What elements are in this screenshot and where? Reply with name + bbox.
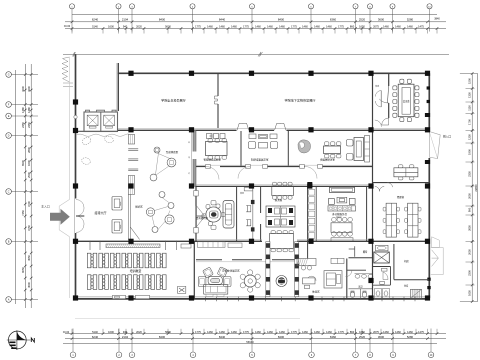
column (73, 295, 78, 300)
service mid unit (329, 199, 335, 205)
lounge side chair right (223, 277, 231, 287)
svg-text:±0.00: ±0.00 (63, 331, 70, 334)
partition x366 (366, 187, 368, 242)
svg-text:1460: 1460 (279, 330, 285, 334)
svg-text:940: 940 (123, 25, 128, 29)
svg-text:视听区: 视听区 (135, 205, 143, 209)
outer wall top (118, 72, 430, 74)
svg-text:1460: 1460 (407, 25, 413, 29)
dimension line top-2 (65, 28, 446, 30)
svg-text:860: 860 (350, 330, 355, 334)
grid bubble top 6 (308, 4, 313, 9)
svg-text:1460: 1460 (326, 25, 332, 29)
wall y166 d (318, 166, 373, 168)
svg-text:学院地下文物修复展厅: 学院地下文物修复展厅 (285, 98, 316, 103)
lounge round table (244, 275, 256, 287)
entry arrow (50, 209, 70, 225)
partition x307 (307, 187, 309, 259)
column (425, 71, 430, 76)
grid bubble left 5 (6, 189, 12, 195)
corridor cabinets above lounge (198, 242, 226, 248)
svg-text:6900: 6900 (21, 160, 25, 166)
svg-text:1460: 1460 (314, 25, 320, 29)
feature pier bottom (128, 176, 134, 195)
toilet stalls (349, 288, 373, 290)
copy room shelf (331, 258, 344, 263)
column (73, 99, 78, 104)
svg-text:1775: 1775 (338, 330, 344, 334)
outer wall left lower (75, 233, 77, 300)
column right wall y115 (425, 113, 430, 117)
partition x316 (315, 187, 317, 242)
dimension line left-0 (15, 70, 17, 304)
grid bubble bottom 6 (309, 352, 315, 358)
svg-text:1460: 1460 (383, 330, 389, 334)
column (307, 183, 312, 188)
wall row2 face line (118, 128, 430, 130)
wall training right x194 (193, 241, 195, 299)
entrance opening line (74, 199, 76, 234)
dimension line bottom-3 (63, 342, 437, 344)
grid bubble top 7 (353, 4, 358, 9)
conference table (398, 84, 414, 117)
svg-text:8400: 8400 (159, 18, 166, 22)
kitchenette counter (297, 259, 316, 266)
column (128, 183, 133, 188)
outer wall right upper (428, 73, 430, 131)
dimension line left-1 (24, 64, 26, 308)
svg-text:6240: 6240 (92, 335, 99, 339)
column (128, 295, 133, 300)
wall row y241 east (297, 240, 430, 242)
svg-text:7450: 7450 (21, 210, 25, 216)
sculpture chair gray blob (298, 140, 311, 153)
top dimension band (64, 4, 446, 34)
table room A (206, 142, 228, 156)
window piers corridor north (206, 165, 211, 169)
interactive zone cluster 2 (159, 192, 165, 198)
svg-text:2104: 2104 (122, 335, 129, 339)
mullion right wall y88 (427, 86, 430, 89)
wall y166 b (220, 166, 250, 168)
svg-text:2650: 2650 (468, 225, 472, 231)
grid bubble left 1 (6, 72, 12, 78)
grid bubble bottom 5 (249, 352, 255, 358)
dimension line right-1 (471, 74, 473, 302)
table room C (324, 146, 341, 154)
canopy break mark (258, 52, 263, 57)
column (368, 239, 373, 244)
column (189, 71, 194, 76)
feature wall lower double line (127, 194, 129, 239)
north arrow compass (7, 330, 35, 350)
svg-text:侧入口: 侧入口 (443, 135, 451, 139)
partition x241 (240, 131, 242, 167)
svg-text:5140: 5140 (92, 330, 98, 334)
svg-text:8440: 8440 (219, 18, 226, 22)
column (249, 183, 254, 188)
seats small room (246, 206, 251, 212)
svg-text:1600: 1600 (108, 25, 114, 29)
svg-text:2450: 2450 (27, 122, 31, 128)
display podium 1 (112, 197, 122, 211)
svg-text:1460: 1460 (267, 330, 273, 334)
partition exhibition halls lower (217, 104, 219, 128)
dimension line bottom-1 (65, 333, 446, 335)
svg-text:1650: 1650 (468, 290, 472, 296)
washbasins (355, 274, 360, 278)
finance table top (272, 186, 294, 195)
column x371 y280 (368, 278, 373, 283)
training desks (87, 253, 91, 268)
column (249, 71, 254, 76)
office desk pair top-right (394, 168, 418, 177)
svg-text:接待大厅: 接待大厅 (94, 210, 106, 215)
service stools row 2 (332, 232, 337, 237)
svg-text:2350: 2350 (468, 171, 472, 177)
partition notch (215, 96, 219, 104)
svg-text:企业文化展示区: 企业文化展示区 (222, 268, 240, 272)
column (73, 183, 78, 188)
grid bubble bottom 3 (129, 352, 135, 358)
niche pier left (266, 242, 270, 297)
column (308, 127, 313, 132)
column (308, 295, 313, 300)
specimen room wall (349, 257, 373, 259)
right band bottom tick (460, 301, 478, 303)
svg-text:1475: 1475 (418, 25, 424, 29)
svg-text:1460: 1460 (407, 330, 413, 334)
svg-text:1460: 1460 (231, 25, 237, 29)
column (308, 71, 313, 76)
svg-text:8440: 8440 (219, 335, 226, 339)
svg-text:1460: 1460 (314, 330, 320, 334)
svg-text:1460: 1460 (279, 25, 285, 29)
niche pier right (295, 242, 299, 297)
outer wall bottom inner line (76, 296, 431, 298)
grid bubble bottom 4 (190, 352, 196, 358)
svg-text:2300: 2300 (468, 270, 472, 276)
svg-text:56640: 56640 (246, 340, 254, 344)
svg-text:1475: 1475 (418, 330, 424, 334)
grid bubble top 10 (427, 4, 432, 9)
svg-text:1775: 1775 (291, 25, 297, 29)
side entrance door leaf (429, 132, 440, 159)
grid bubble bottom 8 (367, 352, 373, 358)
door arcs mid rooms (206, 167, 317, 180)
right band top tick (460, 73, 478, 75)
svg-text:1460: 1460 (255, 330, 261, 334)
svg-text:6360: 6360 (330, 335, 337, 339)
column (189, 183, 194, 188)
chairs room A (208, 139, 213, 142)
grid bubble top 2 (116, 4, 121, 9)
svg-text:2500: 2500 (27, 172, 31, 178)
mullion right wall y287 (427, 286, 430, 289)
wall conference room left lower (388, 103, 390, 118)
svg-text:主入口: 主入口 (41, 203, 50, 208)
svg-text:8400: 8400 (159, 335, 166, 339)
lectern (178, 286, 186, 293)
entry door center stub (76, 215, 84, 217)
dimension line top-0 (72, 14, 437, 16)
shelving strip x307-316 (309, 190, 315, 196)
svg-text:22800: 22800 (474, 184, 478, 192)
outer wall right lower (428, 158, 430, 298)
svg-text:1460: 1460 (302, 330, 308, 334)
svg-text:6360: 6360 (330, 18, 337, 22)
executive desk room C (354, 138, 364, 161)
elevator car 2 (104, 115, 115, 126)
svg-text:1350: 1350 (468, 92, 472, 98)
svg-text:G: G (8, 75, 10, 77)
column x309 y184 (307, 182, 312, 187)
cabinets room A (207, 134, 213, 139)
svg-text:经理室: 经理室 (397, 195, 405, 199)
column (249, 239, 254, 244)
svg-text:1480: 1480 (21, 107, 25, 113)
exterior step marks left wall (63, 83, 73, 87)
svg-text:1900: 1900 (468, 149, 472, 155)
small wc room (373, 266, 391, 268)
vip chairs (208, 222, 212, 226)
svg-text:多媒体研讨室: 多媒体研讨室 (320, 158, 336, 162)
svg-text:1460: 1460 (395, 25, 401, 29)
cabinet row room B (249, 134, 256, 139)
svg-text:1460: 1460 (207, 25, 213, 29)
window piers lobby wall lower (194, 191, 198, 197)
column (308, 239, 313, 244)
grid bubble bottom 1 (70, 352, 76, 358)
sidewalk line (75, 318, 300, 320)
lounge side chair left (198, 277, 206, 287)
entry door arcs (76, 200, 84, 233)
dimension line bottom-2 (65, 338, 446, 340)
bottom dimension band (63, 329, 446, 358)
column (368, 295, 373, 300)
svg-text:科研成果展示室: 科研成果展示室 (251, 158, 269, 162)
svg-text:3600: 3600 (378, 18, 385, 22)
column (189, 295, 194, 300)
svg-text:8400: 8400 (278, 18, 285, 22)
svg-text:2020: 2020 (136, 25, 142, 29)
angled partition lobby (130, 227, 139, 240)
svg-text:1460: 1460 (255, 25, 261, 29)
wall x372 mid (372, 130, 374, 241)
lounge armchair angled left (203, 267, 214, 278)
column (368, 127, 373, 132)
svg-text:1460: 1460 (231, 330, 237, 334)
svg-text:2800: 2800 (27, 147, 31, 153)
svg-text:1775: 1775 (338, 25, 344, 29)
corridor wall south (196, 185, 373, 187)
svg-text:学院全息投影展厅: 学院全息投影展厅 (161, 98, 186, 103)
service cabinets (328, 206, 356, 211)
outer wall bottom (76, 298, 431, 300)
svg-text:财务室: 财务室 (275, 198, 283, 202)
canopy roof line (63, 53, 449, 55)
wall lobby right lower (195, 186, 197, 241)
column (368, 71, 373, 76)
wall row2 c (287, 129, 431, 131)
column (73, 128, 78, 133)
svg-text:2104: 2104 (122, 18, 129, 22)
svg-text:4500: 4500 (27, 282, 31, 288)
lounge north wall with piers (196, 259, 222, 261)
svg-text:智能制造实验室: 智能制造实验室 (204, 158, 222, 162)
svg-text:1460: 1460 (219, 330, 225, 334)
wall y166 a (196, 166, 206, 168)
left dimension band (6, 64, 38, 308)
door arcs conference lobby (375, 91, 381, 108)
wall conference lobby left (372, 73, 374, 130)
column (189, 127, 194, 132)
lounge coffee table (208, 277, 222, 285)
workstation cluster manager 2 (408, 203, 418, 237)
vip sideboard table (223, 201, 234, 229)
toilet partition (347, 269, 366, 271)
lounge armchair angled right (217, 267, 228, 278)
logo display circle (276, 276, 287, 287)
grid bubble top 9 (390, 4, 395, 9)
finance desk cluster (266, 206, 295, 227)
plant ellipses (81, 136, 92, 146)
partition x288 (287, 131, 289, 167)
double door vip room (197, 206, 205, 227)
svg-text:3750: 3750 (27, 225, 31, 231)
svg-text:2020: 2020 (136, 330, 142, 334)
svg-text:1460: 1460 (383, 25, 389, 29)
svg-text:4550: 4550 (27, 255, 31, 261)
svg-text:1480: 1480 (27, 107, 31, 113)
display podium 2 (112, 220, 122, 234)
svg-text:1650: 1650 (359, 25, 365, 29)
grid bubble top 4 (190, 4, 195, 9)
dimension ticks top (71, 21, 74, 24)
grid bubble left 4 (6, 133, 12, 139)
svg-text:1775: 1775 (243, 330, 249, 334)
svg-text:1700: 1700 (468, 119, 472, 125)
svg-text:1460: 1460 (395, 330, 401, 334)
column (425, 295, 430, 300)
svg-text:1775: 1775 (291, 330, 297, 334)
svg-text:2075: 2075 (373, 25, 379, 29)
workstation cluster manager 1 (386, 203, 396, 237)
shaft wall stubs (86, 110, 117, 112)
svg-text:1600: 1600 (108, 330, 114, 334)
svg-text:1460: 1460 (219, 25, 225, 29)
projection screen wall (106, 244, 160, 248)
exterior stair zigzag top-left (62, 57, 70, 82)
grid bubble bottom 2 (116, 352, 122, 358)
column (368, 183, 373, 188)
door arc office (387, 183, 392, 188)
display bars (128, 148, 138, 150)
double door hall 2 (275, 123, 287, 130)
wall toilets left x346 (346, 259, 348, 299)
grid bubble left 6 (6, 239, 12, 245)
feature pier top (128, 135, 134, 145)
column (425, 127, 430, 132)
svg-text:1250: 1250 (468, 134, 472, 140)
grid bubble left 3 (6, 113, 12, 119)
svg-text:5600: 5600 (165, 25, 171, 29)
svg-text:5280: 5280 (407, 18, 414, 22)
svg-text:940: 940 (123, 330, 128, 334)
sink table (376, 245, 389, 251)
wall below elevators (76, 130, 119, 132)
wall lobby right x193-196 filled (193, 130, 196, 186)
column (128, 239, 133, 244)
svg-text:5280: 5280 (407, 335, 414, 339)
svg-text:5140: 5140 (92, 25, 98, 29)
svg-text:1460: 1460 (302, 25, 308, 29)
svg-text:3600: 3600 (378, 335, 385, 339)
partition exhibition halls upper (217, 73, 219, 96)
svg-text:2520: 2520 (359, 335, 366, 339)
outer wall left upper (75, 54, 77, 198)
cabinet room C right (365, 136, 370, 163)
svg-text:多功能服务台: 多功能服务台 (332, 212, 348, 216)
svg-text:1775: 1775 (195, 25, 201, 29)
curtain wall mullion ticks bottom (205, 297, 207, 302)
inner wall small room (252, 188, 254, 241)
shaft with X (374, 252, 390, 263)
column (128, 71, 133, 76)
svg-text:1650: 1650 (359, 330, 365, 334)
service bench (331, 238, 353, 242)
exec chairs room C (347, 140, 354, 147)
elevator shaft block (84, 112, 118, 132)
service counter top (330, 187, 355, 192)
door bump bottom wall 2 (136, 295, 150, 298)
grid bubble bottom 7 (353, 352, 359, 358)
dimension line top-1 (65, 21, 446, 23)
mullion right wall y101 (427, 100, 430, 103)
partition x236 (236, 187, 238, 242)
mullion right wall y279 (427, 278, 430, 281)
dimension line left-2 (30, 64, 32, 308)
grid bubble top 8 (367, 4, 372, 9)
interactive zone cluster 1 (154, 147, 160, 153)
svg-text:9050: 9050 (21, 267, 25, 273)
partition x260 lower (260, 224, 262, 241)
elevator car 1 (87, 115, 98, 126)
column (249, 295, 254, 300)
machine room (393, 244, 395, 280)
svg-text:1500: 1500 (468, 78, 472, 84)
wc stalls left of x372 bottom (373, 284, 391, 286)
dimension ticks right (471, 87, 474, 90)
chairs room C (325, 142, 329, 146)
right dimension band (460, 72, 478, 303)
service table (331, 223, 352, 233)
svg-text:1460: 1460 (326, 330, 332, 334)
armchairs room B (249, 142, 256, 149)
svg-text:贵宾接待室: 贵宾接待室 (196, 216, 209, 220)
partition x260 upper (260, 187, 262, 214)
svg-text:4200: 4200 (27, 86, 31, 92)
dimension line right-2 (477, 74, 479, 302)
svg-text:1775: 1775 (195, 330, 201, 334)
wall row2 a (118, 129, 237, 131)
wall row2 b (249, 129, 274, 131)
door bump bottom wall 1 (113, 295, 126, 298)
door arc conference room (379, 99, 389, 103)
svg-text:5600: 5600 (165, 330, 171, 334)
lounge sofa 3seat (204, 285, 228, 295)
conference chairs (393, 86, 397, 90)
